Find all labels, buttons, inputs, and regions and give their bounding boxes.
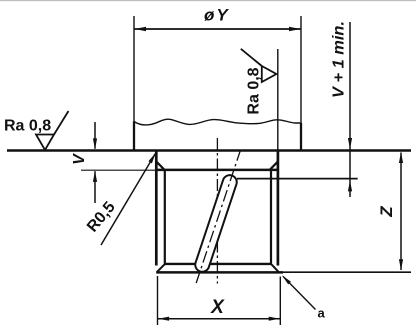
roughness symbol right (rotated) xyxy=(262,66,277,82)
svg-text:V + 1 min.: V + 1 min. xyxy=(331,21,348,98)
inner bottom line xyxy=(164,263,272,265)
dimension line V+1min xyxy=(349,22,351,197)
svg-text:øY: øY xyxy=(204,6,230,25)
dimension V arrows xyxy=(94,122,96,149)
extension line / boss right edge xyxy=(300,16,302,123)
dimension line Z xyxy=(400,153,402,271)
svg-text:Ra 0,8: Ra 0,8 xyxy=(246,67,263,114)
outer bottom line xyxy=(156,271,283,274)
svg-text:X: X xyxy=(210,297,225,318)
seat line xyxy=(157,169,278,172)
extension line to right roughness symbol xyxy=(277,49,279,150)
dimension line X xyxy=(158,318,281,320)
extension line / boss left edge xyxy=(133,16,135,122)
extension line X right xyxy=(279,277,281,326)
hole centerline (vertical) xyxy=(216,138,218,284)
surface line xyxy=(7,149,411,151)
left inner wall xyxy=(164,171,166,264)
scan border top xyxy=(0,0,416,2)
dimension line øY xyxy=(134,28,301,30)
extension line bottom (Z) xyxy=(283,271,411,273)
extension line seat (V dimension) xyxy=(81,169,157,171)
svg-text:Ra 0,8: Ra 0,8 xyxy=(4,118,51,135)
insert coil (diagonal stadium bar) xyxy=(195,175,236,272)
right outer wall xyxy=(277,151,280,266)
svg-text:a: a xyxy=(318,306,326,321)
svg-text:V: V xyxy=(71,153,88,165)
extension line X left xyxy=(157,276,159,325)
diagonal centerline of coil xyxy=(196,150,240,283)
left outer wall xyxy=(155,151,158,266)
leader a xyxy=(283,276,316,309)
left top fillet xyxy=(157,162,165,170)
right inner wall xyxy=(270,171,272,264)
leader R0,5 xyxy=(101,154,155,245)
roughness symbol left xyxy=(36,135,54,151)
break wavy line (boss top) xyxy=(134,119,301,125)
right bottom chamfer xyxy=(271,264,278,272)
svg-text:R0,5: R0,5 xyxy=(84,199,119,236)
reference line insert top xyxy=(237,178,358,180)
right top fillet xyxy=(270,162,278,170)
svg-text:Z: Z xyxy=(377,206,396,218)
left bottom chamfer xyxy=(157,264,165,272)
